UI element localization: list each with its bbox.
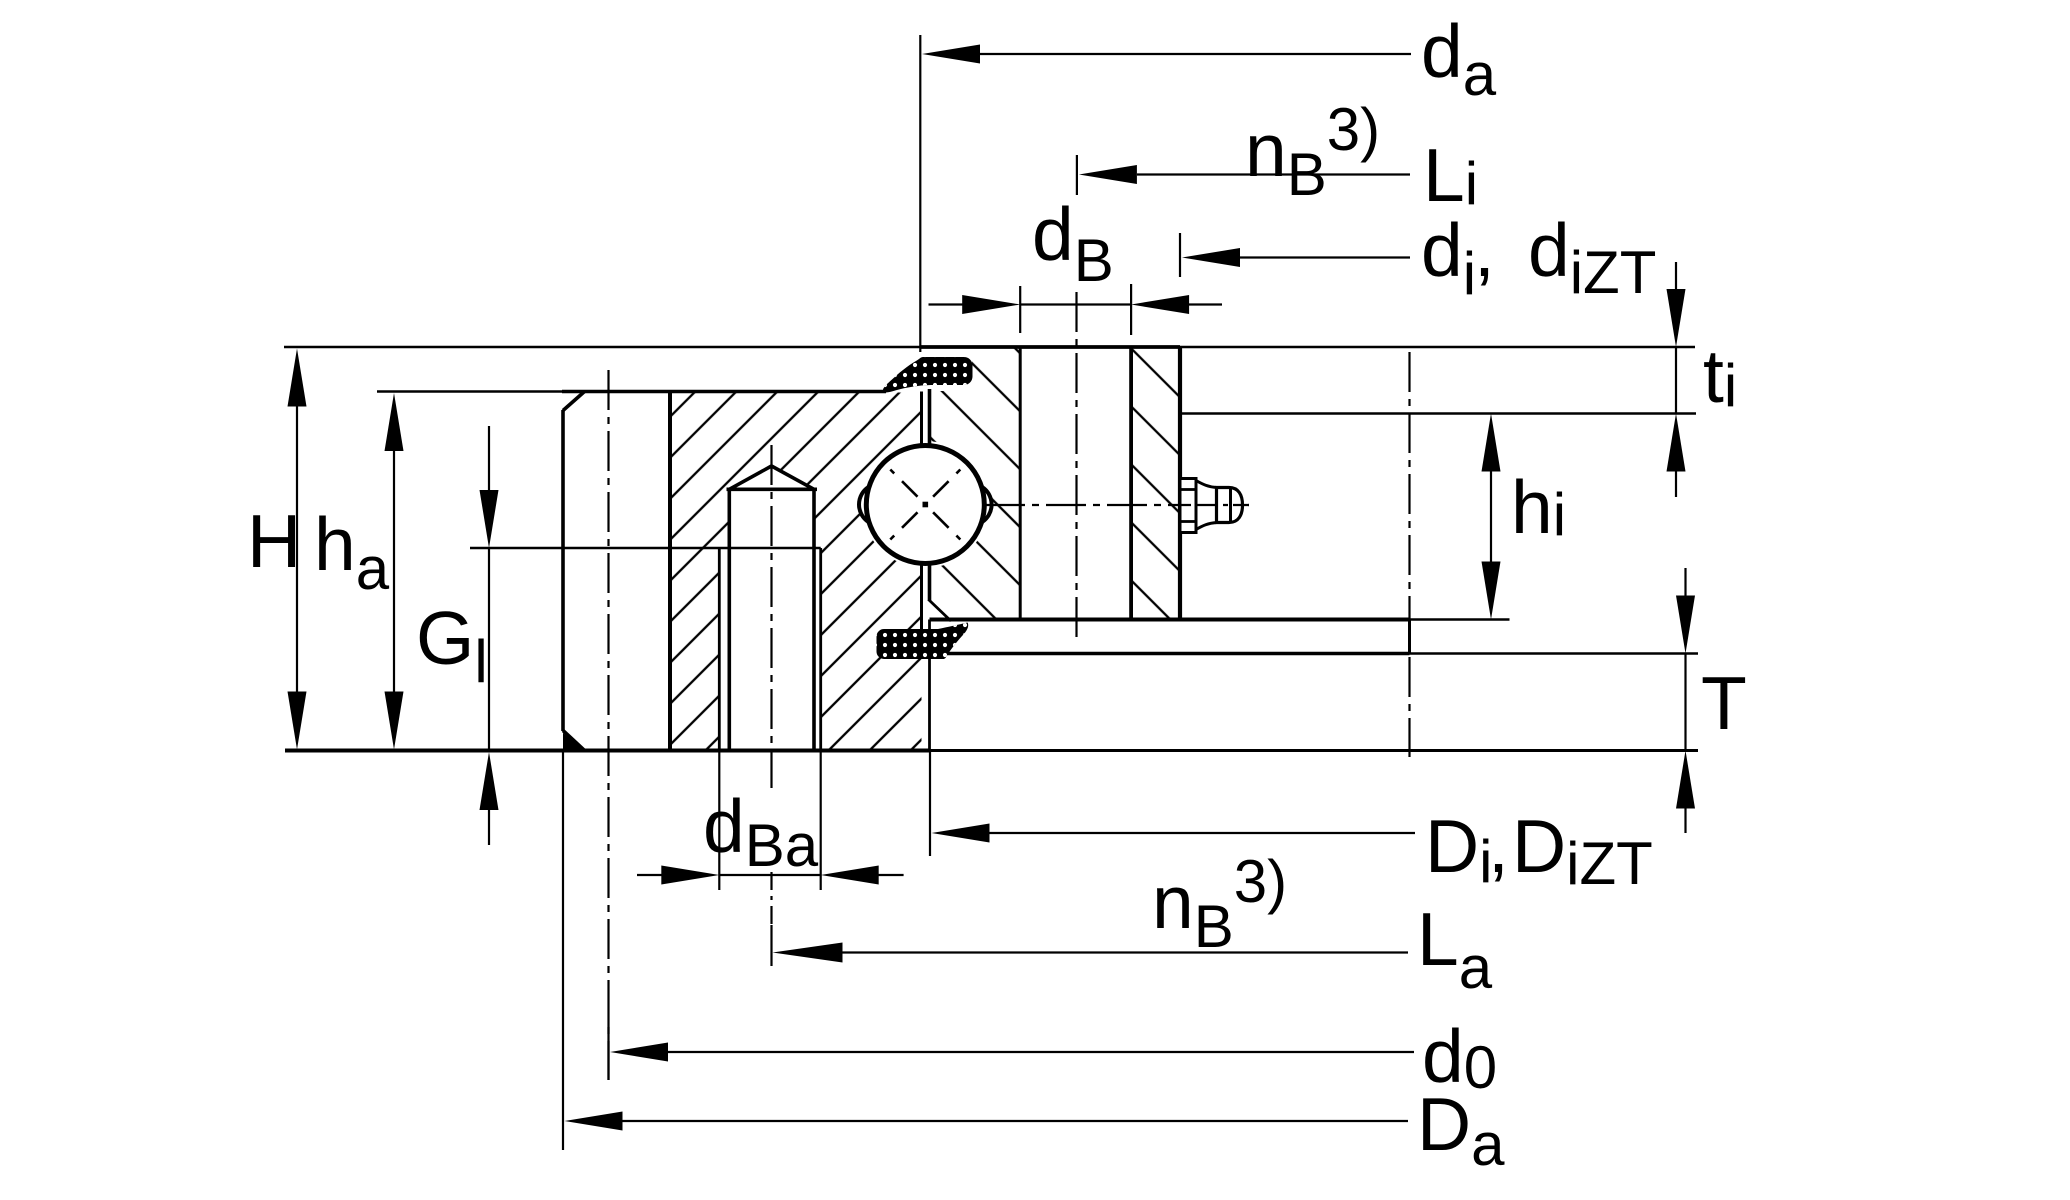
svg-text:T: T xyxy=(1701,661,1747,745)
svg-text:H: H xyxy=(247,499,301,583)
